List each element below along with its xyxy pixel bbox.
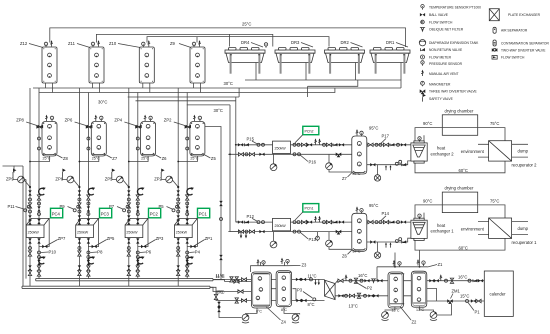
wire riser V2: [236, 97, 241, 222]
wire column pipe A 1: [29, 88, 31, 286]
wire column pipe A 4: [177, 88, 179, 286]
valve stack column 4 lower pipe B: [186, 238, 189, 276]
heat pump PC2 controller: [149, 208, 161, 218]
wire tank Z7 bottom to pipe A: [79, 156, 98, 162]
cooling tower DR1: [370, 40, 410, 80]
svg-text:90°C: 90°C: [423, 121, 432, 126]
safety valve column 1: [13, 169, 16, 177]
svg-text:P5: P5: [159, 204, 165, 209]
svg-text:P2: P2: [367, 286, 373, 291]
tank Z10: [109, 40, 154, 92]
svg-text:P12: P12: [247, 214, 255, 219]
valve group calender supply: [429, 274, 483, 283]
tank Z12: [20, 40, 57, 92]
valves on 11C line left: [230, 277, 233, 282]
wire manifold drops: [261, 262, 285, 266]
heat pump unit 250kW column 3: [125, 218, 148, 246]
wire calender supply line: [427, 280, 484, 282]
pressure sensor P9: [60, 204, 80, 212]
svg-text:Z8: Z8: [63, 156, 69, 161]
svg-text:Z6: Z6: [342, 253, 348, 258]
wire drying loop 2 return: [415, 161, 505, 173]
wire riser to bottom pumps: [219, 301, 242, 318]
tank Z3 vessel: [276, 271, 292, 307]
pressure sensor P13: [293, 230, 317, 242]
legend column 1: [419, 5, 481, 102]
heat pump PC4 controller: [51, 208, 63, 218]
flow meter column 4 upper: [187, 187, 194, 195]
valve group PCh2 return left: [238, 153, 264, 156]
svg-text:30°C: 30°C: [214, 108, 223, 113]
svg-text:8°C: 8°C: [218, 290, 225, 295]
wire header H5: [187, 104, 230, 106]
svg-text:ZP8: ZP8: [16, 118, 24, 123]
valve stack column 4 upper pipe A: [177, 190, 180, 224]
flow meter column 2 upper: [88, 187, 95, 195]
wire 11C line to plate hx: [213, 278, 325, 280]
heat exchanger 2: [411, 137, 427, 163]
svg-text:60°C: 60°C: [459, 245, 468, 250]
cooling tower DR3: [275, 40, 315, 80]
valve stack column 2 lower pipe A: [78, 238, 81, 275]
wire drying loop 2 supply: [415, 128, 505, 143]
pressure sensor P3: [297, 288, 316, 301]
svg-text:recuperator 1: recuperator 1: [512, 240, 538, 245]
svg-text:13°C: 13°C: [349, 304, 358, 309]
svg-text:16°C: 16°C: [458, 275, 467, 280]
wire riser V1: [230, 105, 241, 232]
svg-text:P17: P17: [382, 134, 390, 139]
svg-text:recuperator 2: recuperator 2: [512, 163, 538, 168]
pump ZP6: [55, 176, 80, 188]
wire drying loop 1 chamber return: [423, 213, 425, 221]
wire drying loop 2 chamber return: [423, 135, 425, 143]
tank Z11: [68, 40, 104, 92]
gauge circles pipe B column 4: [186, 137, 189, 140]
pump ZP5: [105, 176, 130, 188]
tank Z4 vessel: [251, 272, 271, 308]
tank Z6: [141, 115, 168, 161]
svg-text:Z1: Z1: [438, 262, 444, 267]
wire Z1 lower outlet: [427, 288, 436, 301]
wire far-left riser pair: [14, 166, 26, 286]
pressure sensor P7: [109, 204, 129, 212]
valve group P15: [238, 137, 265, 147]
svg-text:75°C: 75°C: [490, 198, 499, 203]
pump PCh1 secondary: [270, 232, 277, 248]
safety valve column 2: [62, 169, 65, 177]
wire plate hx to Z2 lower: [335, 295, 427, 297]
svg-text:FLOW SWITCH: FLOW SWITCH: [429, 20, 453, 24]
three-way valve ZP6: [65, 118, 93, 129]
recuperator 1 box: [489, 218, 512, 238]
svg-text:ZP6: ZP6: [65, 118, 73, 123]
wire dump lines 1: [512, 222, 528, 235]
wire header Z10 Z9 to DR2: [147, 37, 329, 47]
vent and sensor on Z1: [417, 259, 420, 265]
plate exchanger main: [325, 280, 336, 300]
pump PCh2 circulation: [326, 154, 352, 172]
valves on 8C line left: [235, 298, 238, 303]
controller PCh2: [295, 126, 319, 143]
svg-text:AIR SEPARATOR: AIR SEPARATOR: [501, 29, 528, 33]
svg-text:PC1: PC1: [199, 211, 208, 216]
pressure sensor P4: [186, 250, 201, 255]
svg-text:P9: P9: [60, 204, 66, 209]
wire tank Z5 bottom to pipe A: [178, 156, 197, 162]
valve ZP1: [190, 236, 213, 248]
pump ZP9: [6, 176, 31, 188]
three-way valve ZP2: [164, 118, 191, 129]
svg-text:Z5: Z5: [211, 156, 217, 161]
drying chamber 1 box: [442, 192, 477, 213]
svg-text:Z3: Z3: [302, 263, 308, 268]
svg-text:16°C: 16°C: [358, 273, 367, 278]
valve stack column 3 lower pipe A: [127, 238, 130, 275]
wire drying loop 1 return: [415, 238, 505, 250]
svg-text:250kW: 250kW: [126, 231, 138, 235]
svg-text:dump: dump: [518, 149, 529, 154]
three-way valve tank feed Z6: [135, 125, 140, 128]
manometer under PCh1 line: [316, 232, 320, 241]
svg-text:TEMPERATURE SENSOR PT1000: TEMPERATURE SENSOR PT1000: [429, 6, 481, 10]
heat pump unit 250kW column 4: [175, 218, 198, 246]
wire collector 11C: [36, 279, 213, 281]
flow meter column 2 lower: [88, 256, 95, 264]
tank Z9: [170, 40, 205, 92]
wire tower return step 2: [308, 80, 358, 86]
valve stack column 1 lower pipe A: [28, 238, 31, 275]
pressure sensor P16: [293, 153, 317, 165]
wire 8C jog to lower pipe: [210, 287, 325, 300]
wire header Z11 to DR3: [96, 34, 272, 46]
valve group 11C right of Z3: [296, 278, 313, 281]
three-way valve tank feed Z5: [185, 125, 190, 128]
svg-text:11°C: 11°C: [308, 274, 317, 279]
wire riser V2 junction: [235, 144, 237, 146]
svg-text:MANOMETER: MANOMETER: [429, 82, 451, 86]
pressure sensor P8: [87, 250, 103, 255]
sensor on tower header: [264, 43, 267, 48]
svg-text:11°C: 11°C: [216, 274, 225, 279]
wire PCh2 supply line: [236, 144, 411, 146]
wire manifold over Z2 Z1: [377, 266, 428, 268]
svg-text:ZP7: ZP7: [58, 236, 66, 241]
svg-text:exchanger 2: exchanger 2: [431, 151, 455, 156]
wire PCh2 hx return line: [367, 161, 414, 165]
valve stack column 4 upper pipe B: [186, 195, 189, 224]
heat pump unit 250kW column 2: [76, 218, 99, 246]
wire tower return line 30C: [245, 80, 401, 88]
valve group 13C mid: [338, 293, 378, 298]
wire riser link to safety valve: [3, 166, 15, 173]
svg-text:PCh1: PCh1: [305, 207, 314, 211]
wire column pipe B 2: [87, 93, 89, 279]
boiler 250kW PCh2: [273, 141, 291, 153]
heat pump PC1 controller: [198, 208, 210, 218]
svg-text:FLOW SWITCH: FLOW SWITCH: [501, 56, 525, 60]
svg-text:OBLIQUE NET FILTER: OBLIQUE NET FILTER: [429, 28, 464, 32]
valve group PCh1 return left: [238, 230, 264, 233]
valve group P12: [238, 214, 265, 224]
drain arrows on 11C line: [316, 279, 319, 283]
pump below Z1: [420, 304, 452, 321]
svg-text:ZP5: ZP5: [107, 236, 115, 241]
buffer tank Z6: [342, 203, 378, 258]
heat exchanger 1: [411, 214, 427, 240]
svg-text:FLOW METER: FLOW METER: [429, 55, 452, 59]
wire PCh1 hx return line: [367, 238, 414, 242]
tank Z5: [190, 115, 217, 161]
cooling tower DR4: [225, 40, 265, 80]
pump PCh1 circulation: [326, 232, 352, 250]
valve stack column 1 upper pipe B: [37, 195, 40, 224]
controller PCh1: [295, 204, 319, 221]
vent and sensor on Z4: [257, 259, 260, 265]
svg-text:87°C: 87°C: [353, 249, 361, 253]
pressure sensor P2: [356, 282, 373, 291]
flow meter column 1 upper: [39, 187, 46, 195]
svg-text:P6: P6: [146, 250, 152, 255]
valve group PCh1 hx return: [370, 238, 406, 248]
calender box: [484, 271, 513, 316]
svg-text:Z7: Z7: [112, 156, 118, 161]
wire tank Z8 bottom to pipe A: [30, 156, 50, 162]
recuperator 2 box: [489, 141, 512, 161]
wire drying loop 1 supply: [415, 205, 505, 220]
wire column pipe B 4: [186, 93, 188, 279]
svg-text:250kW: 250kW: [275, 147, 287, 151]
svg-text:75°C: 75°C: [490, 121, 499, 126]
tank Z1 vessel: [411, 271, 427, 307]
drying chamber 2 box: [442, 115, 477, 136]
svg-text:250kW: 250kW: [275, 224, 287, 228]
pressure sensor P10: [38, 250, 57, 255]
pump below Z3: [246, 307, 300, 323]
svg-text:Z10: Z10: [109, 41, 117, 46]
svg-text:250kW: 250kW: [77, 231, 89, 235]
wire environment fins 2: [478, 144, 489, 157]
tank Z8: [42, 115, 69, 161]
svg-text:P8: P8: [97, 250, 103, 255]
valve group P14: [368, 211, 406, 224]
vent and sensor on Z2: [393, 260, 396, 266]
svg-text:DR4: DR4: [241, 40, 250, 45]
svg-text:DR1: DR1: [386, 40, 395, 45]
valve group 16C mid: [338, 274, 383, 283]
pump ZP2: [154, 176, 179, 188]
wire header H4: [136, 100, 237, 102]
legend column 2: [489, 9, 549, 60]
flow meter column 3 upper: [137, 187, 144, 195]
flow meter column 1 lower: [39, 256, 46, 264]
wire environment fins 1: [478, 222, 489, 235]
wire riser hx1 area to manifold left: [394, 253, 396, 267]
safety valve column 4: [161, 169, 164, 177]
svg-text:Z12: Z12: [20, 41, 28, 46]
valve stack column 3 upper pipe B: [136, 195, 139, 224]
svg-text:NON-RETURN VALVE: NON-RETURN VALVE: [429, 48, 463, 52]
svg-text:exchanger 1: exchanger 1: [431, 229, 455, 234]
valve ZP5: [92, 236, 115, 248]
pump below Z4: [242, 308, 257, 323]
wire 25C header: [50, 28, 406, 47]
wire PCh1 return line: [228, 231, 351, 233]
valve group P17: [368, 134, 406, 147]
gauge circles pipe B column 3: [136, 137, 139, 140]
wire tank mid link: [271, 289, 296, 301]
valve stack column 1 upper pipe A: [28, 190, 31, 224]
svg-text:TWO-WAY DIVERTER VALVE: TWO-WAY DIVERTER VALVE: [501, 48, 546, 52]
svg-text:THREE WAY DIVERTER VALVE: THREE WAY DIVERTER VALVE: [429, 90, 478, 94]
gauge circles pipe B column 2: [87, 137, 90, 140]
svg-text:PC2: PC2: [150, 211, 159, 216]
svg-text:30°C: 30°C: [98, 99, 107, 104]
wire header H3: [128, 96, 239, 98]
svg-text:Z7: Z7: [342, 176, 348, 181]
svg-text:drying chamber: drying chamber: [445, 108, 474, 113]
svg-text:P16: P16: [309, 160, 317, 165]
svg-text:95°C: 95°C: [369, 126, 378, 131]
svg-text:CONTAMINATION SEPARATOR: CONTAMINATION SEPARATOR: [501, 41, 549, 45]
valve group PCh2 hx return: [370, 160, 406, 170]
svg-text:calender: calender: [490, 292, 507, 297]
svg-text:P10: P10: [49, 250, 57, 255]
heat pump PC3 controller: [100, 208, 112, 218]
svg-text:BALL VALVE: BALL VALVE: [429, 13, 449, 17]
svg-text:P1: P1: [475, 310, 481, 315]
wire 11C line to tanks: [213, 280, 252, 282]
svg-text:Z11: Z11: [68, 41, 76, 46]
pressure sensor P1: [466, 299, 482, 314]
svg-text:PLATE EXCHANGER: PLATE EXCHANGER: [508, 13, 541, 17]
svg-text:environment: environment: [461, 149, 485, 154]
pump PCh1 hx loop: [374, 242, 380, 258]
svg-text:250kW: 250kW: [176, 231, 188, 235]
valves on riser: [217, 302, 220, 307]
three-way valve tank feed Z8: [36, 125, 41, 128]
svg-text:ZP1: ZP1: [205, 236, 213, 241]
pump below Z2: [382, 307, 395, 321]
wire column pipe A 3: [128, 88, 130, 286]
wire column pipe B 1: [38, 88, 40, 279]
svg-text:Z9: Z9: [170, 41, 176, 46]
svg-text:60°C: 60°C: [459, 168, 468, 173]
svg-text:ZP4: ZP4: [114, 118, 122, 123]
svg-text:250kW: 250kW: [28, 231, 40, 235]
buffer tank Z7: [342, 126, 378, 182]
svg-text:25°C: 25°C: [242, 22, 251, 27]
svg-text:P15: P15: [247, 137, 255, 142]
svg-text:P11: P11: [8, 204, 16, 209]
valve group PCh1 supply after boiler: [293, 216, 344, 224]
wire calender return line: [427, 300, 484, 302]
tank Z2 vessel: [388, 272, 404, 308]
svg-text:environment: environment: [461, 227, 485, 232]
svg-text:P14: P14: [382, 211, 390, 216]
pressure sensor P6: [136, 250, 151, 255]
wire PCh1 supply line: [236, 221, 411, 223]
valve stack column 1 lower pipe B: [37, 238, 40, 276]
pump PCh2 hx loop: [374, 165, 380, 181]
wire 8C line to tanks: [210, 287, 252, 291]
valve ZP7: [42, 236, 66, 248]
valve stack column 3 lower pipe B: [136, 238, 139, 276]
wire column pipe B 3: [137, 93, 139, 279]
valve stack column 3 upper pipe A: [127, 190, 130, 224]
svg-text:P7: P7: [109, 204, 115, 209]
svg-text:PCh2: PCh2: [305, 129, 314, 133]
wire tank top manifold Z3 Z4: [251, 266, 287, 272]
wire header H2: [39, 88, 335, 93]
svg-text:30°C: 30°C: [224, 81, 233, 86]
wire manifold riser: [376, 267, 378, 281]
valve stack column 2 upper pipe B: [87, 195, 90, 224]
pressure sensor P5: [159, 204, 179, 212]
boiler 250kW PCh1: [273, 218, 291, 230]
flow meter column 3 lower: [137, 256, 144, 264]
svg-text:87°C: 87°C: [353, 172, 361, 176]
wire PCh2 return line: [228, 153, 351, 155]
wire dump lines 2: [512, 144, 528, 157]
svg-text:ZP3: ZP3: [156, 236, 164, 241]
valve stack column 2 upper pipe A: [78, 190, 81, 224]
wire collector 8C: [22, 286, 210, 288]
pressure sensor P11: [8, 204, 31, 212]
svg-text:90°C: 90°C: [423, 198, 432, 203]
three-way valve PCh2 return: [336, 153, 342, 158]
svg-text:Z6: Z6: [162, 156, 168, 161]
svg-text:DR2: DR2: [341, 40, 350, 45]
svg-text:dump: dump: [518, 226, 529, 231]
svg-text:Z4: Z4: [281, 320, 287, 325]
valve on 8C jog: [214, 294, 217, 299]
svg-text:Z2: Z2: [412, 320, 418, 325]
svg-text:ZP2: ZP2: [164, 118, 172, 123]
svg-text:PC3: PC3: [101, 211, 110, 216]
svg-text:8°C: 8°C: [308, 302, 315, 307]
valve ZP3: [141, 236, 164, 248]
wire riser drying loop to Z1: [419, 250, 421, 267]
valve group PCh2 supply after boiler: [293, 138, 344, 146]
wire riser DR link: [238, 88, 240, 97]
valves on Z5 side riser: [219, 201, 222, 206]
valve on 8C line: [238, 290, 243, 293]
valve stack column 4 lower pipe A: [177, 238, 180, 275]
gauge circles pipe B column 1: [38, 137, 41, 140]
valve on 11C line: [234, 280, 239, 283]
svg-text:PRESSURE SENSOR: PRESSURE SENSOR: [429, 62, 463, 66]
svg-text:DR3: DR3: [291, 40, 300, 45]
valve group 8C right of Z3: [296, 299, 306, 302]
svg-text:PC4: PC4: [52, 211, 61, 216]
cooling tower DR2: [325, 40, 365, 80]
svg-text:P4: P4: [195, 250, 201, 255]
wire DR4 feed: [229, 34, 231, 46]
wire tower return step drop: [307, 86, 309, 97]
svg-text:heat: heat: [437, 146, 446, 151]
svg-text:SAFETY VALVE: SAFETY VALVE: [429, 97, 454, 101]
three-way valve ZP8: [16, 118, 43, 129]
wire Z9 drop: [196, 37, 198, 43]
three-way valve ZM1: [447, 289, 460, 304]
wire tank Z6 bottom to pipe A: [129, 156, 148, 162]
wire plate hx to Z2 upper: [335, 281, 427, 284]
svg-text:15°C: 15°C: [460, 294, 469, 299]
heat pump unit 250kW column 1: [26, 218, 49, 246]
three-way valve tank feed Z7: [86, 125, 91, 128]
svg-text:95°C: 95°C: [369, 203, 378, 208]
